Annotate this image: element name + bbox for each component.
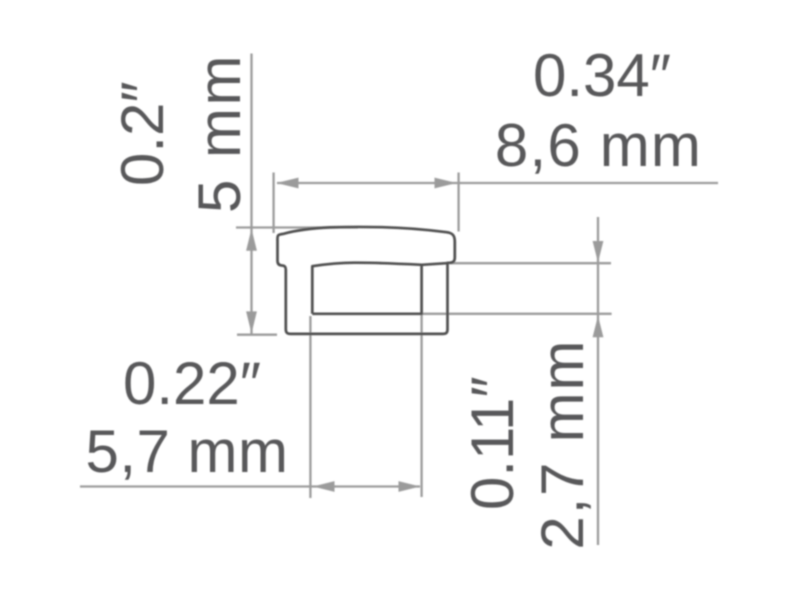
dimension 8,6 mm: right extension line xyxy=(457,173,459,232)
dimension 8,6 mm: dimension line xyxy=(277,182,718,184)
svg-text:8,6 mm: 8,6 mm xyxy=(495,112,702,179)
dimension 5 mm: bottom extension tick xyxy=(237,334,277,336)
dimension 5,7 mm: right arrowhead xyxy=(399,481,421,492)
dimension 5 mm: vertical dimension line xyxy=(250,54,252,335)
dimension 8,6 mm: left arrowhead xyxy=(277,178,299,189)
dimension 2,7 mm: upper reference line xyxy=(450,262,611,264)
dimension 2,7 mm: upper leader with down arrowhead xyxy=(597,217,599,545)
dimension 8,6 mm: right arrowhead xyxy=(435,178,457,189)
end cap: inner recess outline xyxy=(312,263,446,314)
dimension 5,7 mm: left extension line xyxy=(309,316,311,498)
svg-text:0.2″: 0.2″ xyxy=(109,81,176,186)
dimension 2,7 mm: lower leader up arrowhead xyxy=(593,316,604,338)
dimension 5 mm: up arrowhead xyxy=(246,229,257,251)
dimension 5,7 mm: left arrowhead xyxy=(313,481,335,492)
dimension 5,7 mm: right extension line xyxy=(420,314,422,497)
dimension 2,7 mm: lower reference line xyxy=(422,313,612,315)
svg-text:0.34″: 0.34″ xyxy=(533,42,671,109)
dimension 8,6 mm: left extension line xyxy=(272,173,274,234)
dimension 5 mm: down arrowhead xyxy=(246,311,257,333)
end cap: outer profile xyxy=(277,227,454,334)
svg-text:5,7 mm: 5,7 mm xyxy=(85,418,288,485)
svg-text:0.11″: 0.11″ xyxy=(459,376,526,510)
svg-text:0.22″: 0.22″ xyxy=(123,350,261,417)
svg-text:5 mm: 5 mm xyxy=(186,53,253,213)
svg-text:2,7 mm: 2,7 mm xyxy=(529,339,596,550)
dimension 5 mm: top extension tick xyxy=(236,226,358,228)
dimension 5,7 mm: dimension line xyxy=(80,485,420,487)
